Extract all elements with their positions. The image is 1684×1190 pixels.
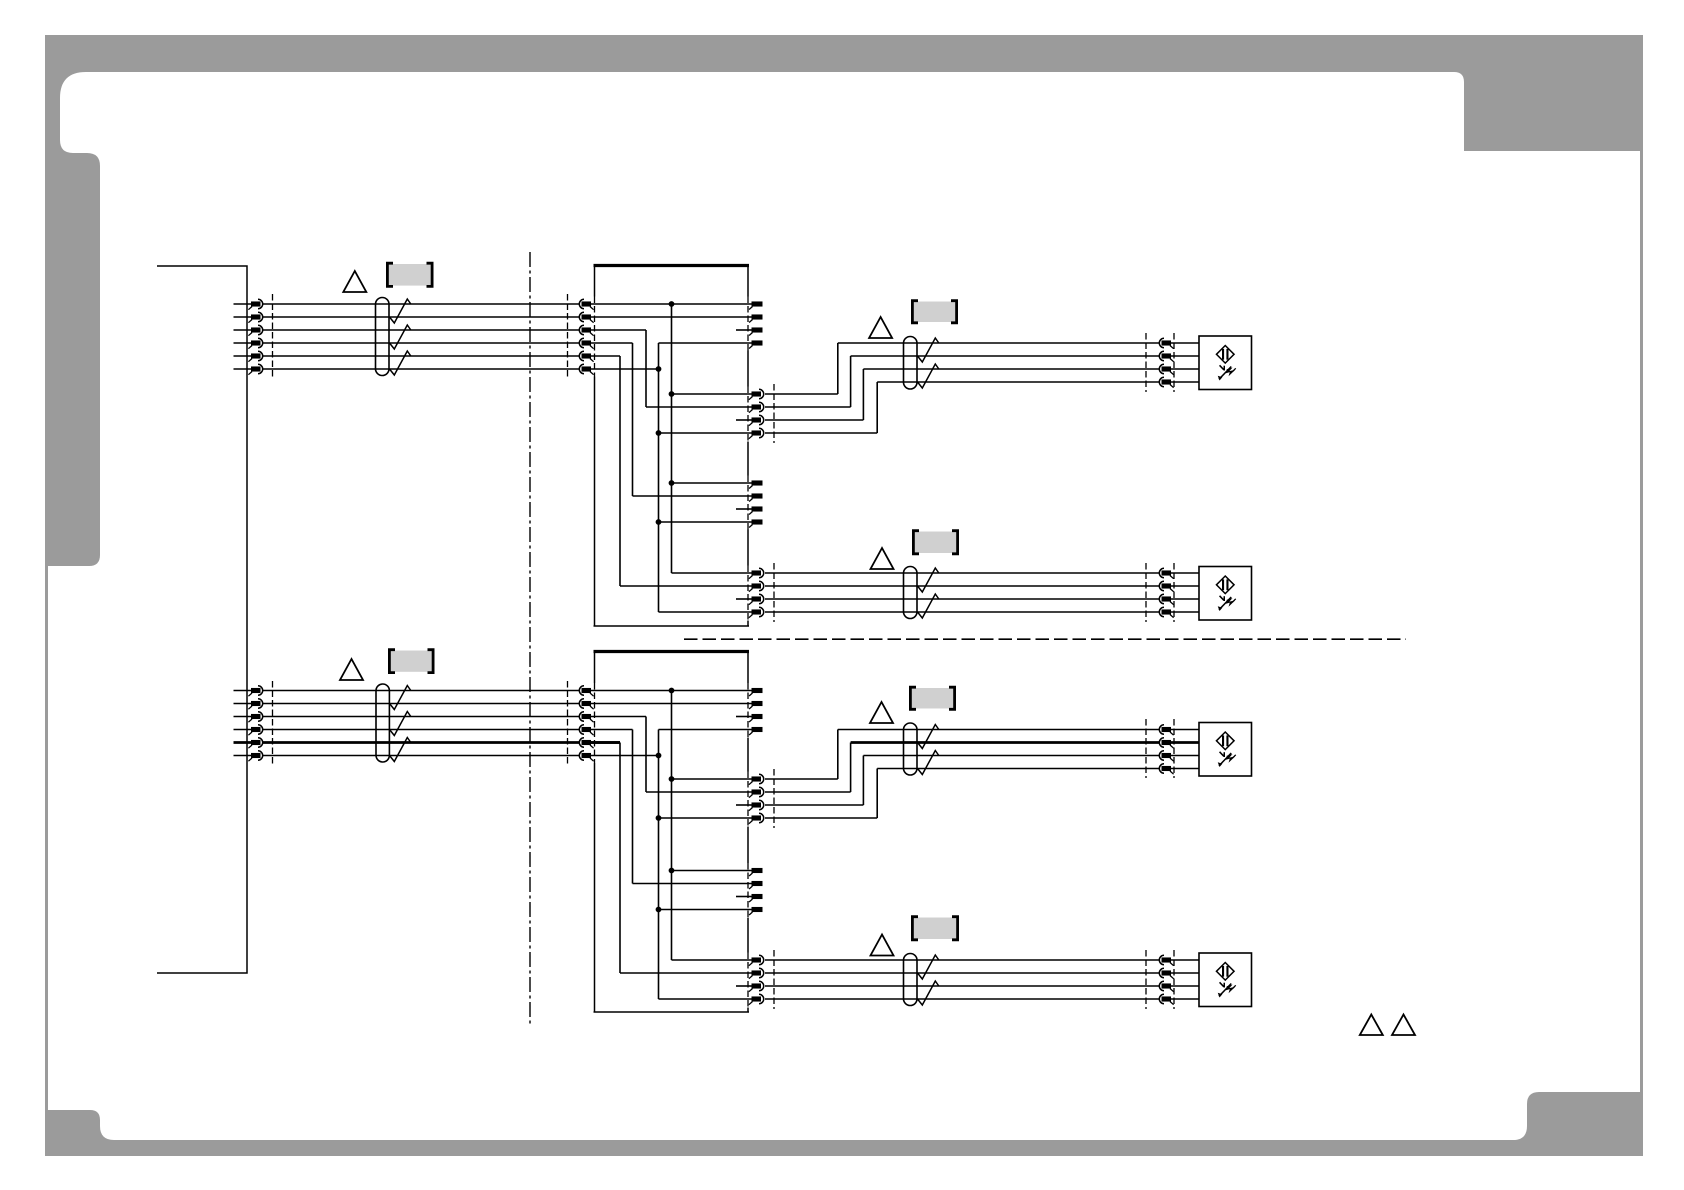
connector D boundary dashed line (crossover 2) — [773, 950, 775, 1009]
cable shield symbol (speaker cable 2) — [904, 567, 918, 619]
bus V1 (crossover 1) — [672, 304, 752, 573]
warning triangle 8 — [1392, 1015, 1415, 1036]
crossover box 1 outline — [594, 266, 750, 627]
chassis boundary dash-dot line — [529, 252, 531, 1025]
dashed edge at connector B (crossover 2) — [747, 772, 749, 827]
speaker 2 connector pins — [1159, 568, 1173, 617]
connector CN2 pins (main board lower) — [248, 686, 262, 761]
dashed edge at connector C (crossover 2) — [747, 863, 749, 918]
connector pins (crossover 1 input) — [579, 299, 593, 374]
connector CN2 boundary dashed line — [272, 681, 274, 765]
twisted-pair marks (lower left cable) — [390, 686, 411, 762]
connector A pins (crossover 1, unused output) — [749, 301, 762, 348]
speaker unit 3 box — [1199, 723, 1252, 777]
wire row 5 (bold) to D2 inside crossover 2 — [591, 743, 752, 974]
warning triangle 6 — [871, 935, 894, 956]
speaker 1 connector dashed lines — [1146, 333, 1174, 392]
warning triangle 7 — [1360, 1015, 1383, 1036]
speaker unit 1 box — [1199, 336, 1252, 390]
dashed edge at connector B — [747, 387, 749, 442]
junction dots on bus V1 (crossover 2) — [669, 688, 675, 874]
connector D boundary dashed line — [773, 563, 775, 622]
connector CN1 boundary dashed line — [272, 294, 274, 379]
wire row 5 to D2 inside crossover 1 — [591, 356, 752, 586]
lower left cable wires (main board to crossover 2) — [234, 691, 621, 756]
main board outline — [157, 266, 247, 973]
warning triangle 3 — [871, 548, 894, 569]
warning triangle 4 — [340, 659, 363, 680]
connector pins (crossover 2 input) — [579, 686, 593, 761]
speaker 4 connector dashed lines — [1146, 950, 1174, 1009]
redacted part label 2 — [911, 301, 958, 323]
n.c. pin stubs (crossover 1) — [736, 330, 752, 599]
connector B pins (crossover 2 output to speaker 3) — [749, 774, 764, 823]
speaker cable 3 step-up wires — [765, 730, 877, 819]
wire row 6 to bus V2 inside crossover 2 — [591, 755, 659, 757]
speaker unit 2 box — [1199, 567, 1252, 621]
separator dashed line between upper and lower sections — [684, 638, 1406, 640]
crossover box 2 outline — [594, 652, 750, 1013]
speaker 3 connector pins — [1159, 725, 1173, 774]
upper left cable wires (main board to crossover) — [234, 304, 582, 369]
twisted-pair marks (speaker cable 3) — [918, 725, 939, 775]
junction dots on bus V2 (crossover 2) — [656, 753, 662, 913]
wire row 3 to B2 inside crossover 2 — [591, 717, 752, 793]
cable shield symbol (lower left cable) — [376, 684, 389, 762]
speaker 4 connector pins — [1159, 955, 1173, 1004]
connector B boundary dashed line (crossover 2) — [773, 769, 775, 828]
connector B pins (crossover 1 output to speaker 1) — [749, 389, 764, 438]
twisted-pair marks (upper left cable) — [390, 299, 411, 375]
dashed edge at connector A (crossover 2) — [747, 683, 749, 738]
speaker cable 4 wires — [765, 960, 1199, 999]
connector boundary dashed line (crossover 1 input) — [567, 294, 569, 379]
speaker 1 connector pins — [1159, 338, 1173, 387]
bus V2 (crossover 2) — [659, 730, 752, 1000]
wire row 2 inside crossover 2 — [591, 703, 752, 705]
bus V2 (crossover 1) — [659, 343, 752, 612]
wire row 2 inside crossover 1 — [591, 316, 752, 318]
speaker cable 1 wires — [838, 343, 1199, 382]
wire row 4 to C2 inside crossover 2 — [591, 730, 752, 884]
dashed edge at connector A — [747, 297, 749, 351]
twisted-pair marks (speaker cable 4) — [918, 955, 939, 1005]
wire row 1 inside crossover 2 — [591, 690, 752, 692]
connector CN1 pins (main board upper) — [248, 299, 262, 374]
wire row 3 to B2 inside crossover 1 — [591, 330, 752, 407]
redacted part label 5 — [909, 687, 956, 709]
warning triangle 1 — [343, 271, 366, 292]
dashed edge at connector D (crossover 2) — [747, 953, 749, 1008]
twisted-pair marks (speaker cable 2) — [918, 568, 939, 618]
speaker cable 1 step-up wires — [765, 343, 877, 433]
wire row 4 to C2 inside crossover 1 — [591, 343, 752, 496]
connector D pins (crossover 2 output to speaker 4) — [749, 955, 764, 1004]
connector boundary dashed line (crossover 2 input) — [567, 681, 569, 765]
speaker 3 connector dashed lines — [1146, 719, 1174, 778]
speaker cable 2 wires — [765, 573, 1199, 612]
dashed edge at connector C — [747, 476, 749, 530]
junction dots on bus V2 (crossover 1) — [656, 366, 662, 525]
redacted part label 1 — [386, 263, 434, 286]
warning triangle 5 — [870, 702, 893, 723]
connector B boundary dashed line — [773, 384, 775, 443]
junction dots on bus V1 (crossover 1) — [669, 301, 675, 486]
cable shield symbol (speaker cable 4) — [904, 954, 918, 1006]
speaker 2 connector dashed lines — [1146, 563, 1174, 622]
connector D pins (crossover 1 output to speaker 2) — [749, 568, 764, 617]
cable shield symbol (speaker cable 1) — [904, 337, 918, 390]
wire row 6 to bus V2 inside crossover 1 — [591, 368, 659, 370]
wire row 1 inside crossover 1 — [591, 303, 752, 305]
redacted part label 6 — [911, 917, 959, 940]
speaker cable 3 wires (wire 2 bold) — [838, 730, 1199, 769]
twisted-pair marks (speaker cable 1) — [918, 338, 939, 388]
bus V1 (crossover 2) — [672, 691, 752, 961]
connector C pins (crossover 1, unused output) — [749, 480, 762, 527]
cable shield symbol (upper left cable) — [376, 298, 390, 376]
n.c. pin stubs (crossover 2) — [736, 717, 752, 987]
warning triangle 2 — [869, 317, 892, 338]
connector C pins (crossover 2, unused output) — [749, 868, 762, 915]
cable shield symbol (speaker cable 3) — [904, 723, 918, 775]
speaker unit 4 box — [1199, 953, 1252, 1007]
dashed edge at connector D — [747, 566, 749, 621]
redacted part label 3 — [912, 531, 959, 554]
redacted part label 4 — [388, 650, 435, 673]
connector A pins (crossover 2, unused output) — [749, 688, 762, 735]
